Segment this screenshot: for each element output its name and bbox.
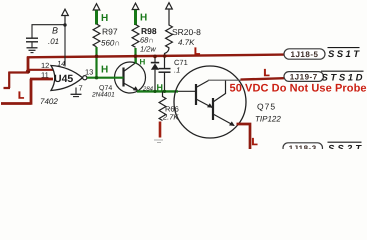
svg-text:7402: 7402 [40, 97, 58, 106]
pin label 11 [41, 71, 49, 80]
svg-text:STS1D: STS1D [322, 73, 363, 84]
capacitor C71 [159, 69, 171, 92]
svg-text:H: H [140, 58, 146, 67]
svg-text:L: L [264, 68, 270, 79]
node junction at bus x96 [95, 55, 99, 59]
svg-text:B: B [52, 26, 58, 36]
waveform ref 284 [142, 86, 154, 93]
svg-text:U45: U45 [54, 73, 73, 85]
svg-text:H: H [101, 65, 108, 76]
label L (emitter) [252, 137, 258, 148]
value 68 ohm [140, 36, 154, 45]
value 560 ohm [101, 39, 120, 48]
power arrow (SR20-8) [166, 3, 173, 9]
power arrow (R98) [132, 3, 139, 9]
resistor SR20-8 [166, 25, 173, 48]
label Q74 [99, 85, 112, 92]
diode CR (bus to emitter rail) [151, 57, 159, 92]
node junction rail/diode [153, 90, 156, 93]
svg-text:7: 7 [79, 84, 83, 93]
net label H [101, 13, 108, 24]
svg-text:H: H [157, 83, 164, 93]
signal SS1T [328, 48, 361, 60]
label L (on bus) [194, 47, 200, 58]
svg-text:Q75: Q75 [257, 102, 276, 112]
svg-text:1J18-3: 1J18-3 [289, 144, 317, 149]
wire U45 output to Q74 base (H green) [87, 77, 124, 79]
svg-text:L: L [194, 47, 200, 58]
wire red collector to 1J19-7 [241, 78, 285, 79]
value 2N4401 [91, 92, 115, 99]
wire red bus SS1T (main horizontal) [27, 55, 284, 58]
wire SR20-8 bottom curving through bus to C71 [165, 48, 170, 69]
svg-text:4.7K: 4.7K [178, 38, 195, 47]
capacitor .01 bypass [26, 38, 38, 47]
pin label 14 [57, 59, 65, 68]
svg-text:H: H [140, 13, 147, 24]
off-page tiny note [154, 140, 163, 143]
svg-text:12: 12 [41, 61, 49, 70]
svg-text:1J18-5: 1J18-5 [291, 50, 319, 59]
label SR20-8 [172, 27, 201, 37]
wire to bypass cap [32, 25, 65, 38]
transistor Q74 [115, 62, 146, 93]
node junction R97/base [95, 76, 98, 79]
resistor R66 [159, 91, 166, 120]
label R66 [165, 105, 179, 114]
wire red corner from bus down to U45 inputs node [27, 57, 30, 73]
node junction dot at cap/pin14 [63, 23, 66, 26]
wire pin 7 to ground [75, 88, 77, 95]
svg-text:50 VDC Do Not Use Probe: 50 VDC Do Not Use Probe [230, 83, 367, 95]
label L (collector) [264, 68, 270, 79]
value label 7402 [40, 97, 58, 106]
connector 1J19-7 [284, 72, 324, 82]
value 2.7K [162, 113, 179, 122]
wire L-net hook from left edge to junction [4, 72, 29, 89]
svg-text:.01: .01 [48, 37, 59, 46]
wire pin 11 net from bottom-left rail [1, 79, 53, 105]
wire supply to R97 (H highlighted) [95, 10, 98, 24]
signal SS2T [328, 142, 363, 154]
node junction at bus x135 [134, 54, 138, 58]
wire Q75 collector line [208, 79, 241, 81]
svg-text:R98: R98 [141, 26, 157, 36]
pin label 13 [85, 68, 93, 77]
label L (left net) [18, 91, 24, 102]
value .1 [174, 66, 180, 75]
svg-text:284: 284 [142, 86, 154, 93]
label R97 [102, 27, 118, 37]
svg-text:.1: .1 [174, 66, 180, 75]
svg-text:H: H [101, 13, 108, 24]
value label .01 [48, 37, 59, 46]
signal STS1D [321, 71, 364, 83]
wire R97 bottom through bus to Q74 base node (H) [95, 47, 97, 78]
wire R66 bottom (red highlighted off-page) [159, 122, 162, 138]
value label B [52, 26, 58, 36]
wire R98 bottom through bus to Q74 collector [134, 48, 136, 63]
wire pin 12 stub (red) [27, 69, 53, 71]
net label H [140, 13, 147, 24]
wire Q74 collector to bus [135, 58, 137, 64]
svg-text:L: L [18, 91, 24, 102]
net label H (rail) [157, 83, 164, 93]
resistor R97 [93, 24, 100, 47]
svg-text:R97: R97 [102, 27, 118, 37]
svg-text:1J19-7: 1J19-7 [290, 73, 318, 82]
wire supply to SR20-8 [168, 9, 170, 26]
svg-text:68∩: 68∩ [140, 36, 154, 45]
resistor R98 [132, 25, 139, 48]
svg-text:1/2w: 1/2w [140, 45, 156, 54]
pin label 7 [79, 84, 83, 93]
wire pin 14 vertical [64, 25, 66, 67]
transistor Q75 (Darlington) [174, 66, 246, 138]
value TIP122 [255, 115, 281, 124]
connector 1J18-5 [284, 49, 325, 59]
label Q75 [257, 102, 276, 112]
net label H (collector) [140, 58, 146, 67]
svg-text:11: 11 [41, 71, 49, 80]
wire emitter rail to Q75 base (H green) [137, 90, 178, 92]
connector 1J18-3 (cut at bottom edge) [283, 143, 323, 153]
power arrow (R97) [93, 4, 100, 10]
warning text 50 VDC [230, 83, 367, 95]
value 1/2W [140, 45, 156, 54]
svg-text:13: 13 [85, 68, 93, 77]
node junction rail/C71 [163, 90, 166, 93]
wire red emitter to 1J18-3 [237, 124, 251, 149]
power arrow (U45 Vcc) [62, 9, 69, 25]
label R98 [141, 26, 157, 36]
svg-text:TIP122: TIP122 [255, 115, 281, 124]
svg-text:L: L [252, 137, 258, 148]
node junction diode top [153, 55, 157, 59]
node junction dot U45 input tie [26, 69, 30, 73]
pin label 12 [41, 61, 49, 70]
op-amp U45 NOR gate (7402) [51, 66, 87, 91]
wire supply to R98 (H highlighted) [134, 10, 137, 25]
svg-text:2N4401: 2N4401 [91, 92, 115, 99]
svg-text:SR20-8: SR20-8 [172, 27, 201, 37]
svg-text:560∩: 560∩ [101, 39, 120, 48]
ground (cap) [27, 48, 38, 53]
node junction at bus x164 [163, 54, 167, 58]
label C71 [174, 58, 188, 67]
ground (pin 7) [71, 94, 82, 96]
net label H (base) [101, 65, 108, 76]
value 4.7K [178, 38, 195, 47]
